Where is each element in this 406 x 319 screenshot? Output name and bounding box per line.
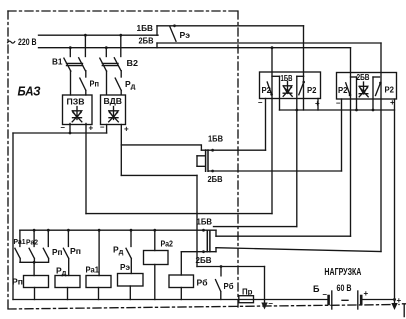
- node dot Rp1 top: [47, 229, 50, 232]
- contact Re blade: [170, 27, 176, 41]
- wire bottom bus right: [363, 299, 395, 301]
- svg-text:+: +: [364, 289, 369, 298]
- svg-text:+: +: [89, 124, 94, 133]
- wire VDV plus branch to plates: [121, 145, 201, 150]
- wire c1 riser to U1: [271, 48, 273, 214]
- wire Rb coil top riser: [180, 252, 182, 275]
- svg-text:В2: В2: [127, 58, 139, 68]
- svg-text:220 В: 220 В: [18, 37, 37, 48]
- wire PZV minus pin: [69, 124, 71, 134]
- wire U1 goalpost left: [279, 76, 281, 110]
- contact P2 right U1 stub: [297, 75, 304, 77]
- svg-text:–: –: [323, 290, 328, 299]
- wire riser to 2BV line: [156, 43, 158, 48]
- contact Rp2: [63, 230, 68, 275]
- rectifier unit PZV box: [63, 95, 93, 125]
- svg-text:Рб: Рб: [197, 278, 208, 288]
- contact P2 left U2 stub: [351, 76, 357, 78]
- svg-text:2БВ: 2БВ: [357, 73, 370, 82]
- wire left rail down: [12, 133, 14, 300]
- node dot U1 left top: [271, 46, 274, 49]
- battery switch lower main vertical: [196, 214, 198, 267]
- node dot U2 blade left: [349, 94, 352, 97]
- contact Rp1: [43, 230, 48, 262]
- svg-text:Ра2: Ра2: [161, 239, 174, 249]
- svg-text:Р2: Р2: [262, 86, 272, 95]
- battery switch lower plates: [207, 230, 210, 252]
- wire riser to 1BV line: [156, 26, 158, 35]
- wire V2 left to VDV: [106, 71, 108, 95]
- unit U2 box 2BV: [337, 73, 397, 100]
- svg-text:1БВ: 1БВ: [137, 23, 154, 33]
- svg-text:Ра1: Ра1: [86, 265, 100, 275]
- node dot upper bottom lead: [211, 170, 214, 173]
- wire top lead to U1 minus: [265, 99, 267, 151]
- svg-text:+: +: [124, 125, 129, 134]
- wire load minus drop: [264, 267, 266, 304]
- diode symbol U2: [359, 82, 368, 97]
- svg-text:Рп: Рп: [90, 79, 100, 89]
- unit U1 box 1BV: [260, 72, 321, 99]
- svg-text:Пр: Пр: [242, 288, 253, 297]
- breaker V2 pole right: [120, 35, 122, 56]
- contact Ra1: [15, 230, 20, 262]
- breaker V2 blade left: [100, 58, 107, 71]
- svg-text:2БВ: 2БВ: [208, 175, 223, 184]
- enclosure dash-dot border BAZ top: [8, 10, 238, 12]
- coil Ra1: [86, 276, 111, 288]
- node dot V1 left on bottom bus: [69, 46, 72, 49]
- node dot Rd2 top: [130, 229, 133, 232]
- node dot Rp coil drop: [33, 261, 36, 264]
- node dot Ra1 riser: [98, 229, 101, 232]
- contact Ra2: [29, 230, 34, 262]
- svg-text:Рп: Рп: [12, 277, 23, 287]
- diode symbol U1: [283, 82, 292, 97]
- wire 1BV tap horizontal: [214, 226, 297, 228]
- wire Ra1 coil riser: [98, 230, 100, 275]
- svg-text:Рэ: Рэ: [120, 262, 130, 272]
- battery switch upper bracket stubs: [197, 156, 205, 167]
- node dot U2 goalpost right on H rail: [372, 109, 375, 112]
- node dot plus rail: [393, 298, 396, 301]
- svg-text:Рд: Рд: [125, 79, 136, 91]
- wire drop to Rp coil: [33, 262, 35, 275]
- contact P2 right U2 blade: [376, 83, 381, 96]
- wire Re coil bottom: [129, 286, 131, 300]
- svg-text:+: +: [315, 99, 320, 108]
- relay row top wire: [20, 229, 216, 231]
- node dot U1 blade right: [302, 81, 305, 84]
- breaker V1 blade left: [64, 58, 71, 71]
- wire upper plates top lead: [201, 149, 265, 151]
- wire VDV to bracket: [121, 174, 197, 176]
- battery switch lower bottom stub: [181, 251, 216, 253]
- svg-text:Б: Б: [313, 284, 320, 294]
- wire V2 right to Rd contact: [120, 71, 122, 77]
- wire V1 left to PZV: [70, 71, 72, 95]
- contact P2 left U2 blade: [346, 83, 350, 95]
- arrow load minus: [261, 303, 267, 310]
- wire V1 right to Rp contact: [85, 71, 87, 77]
- node dot U1 goalpost right on H rail: [295, 109, 298, 112]
- node dot U2 blade right: [379, 82, 382, 85]
- node dot Ra2 top: [33, 229, 36, 232]
- wire lower corner to load: [197, 266, 265, 268]
- contact Rd blade: [115, 78, 121, 90]
- svg-text:–: –: [100, 123, 105, 132]
- node dot V2 right on top bus: [119, 34, 122, 37]
- svg-text:Рп: Рп: [52, 247, 63, 257]
- node dot upper top lead: [211, 149, 214, 152]
- enclosure dash-dot border BAZ left: [7, 11, 9, 309]
- coil Re: [118, 274, 144, 287]
- wire Rd to VDV: [120, 90, 122, 94]
- node dot load branch: [220, 265, 223, 268]
- wire 1BV line to box U1: [157, 25, 304, 27]
- diode symbol VDV: [109, 107, 119, 122]
- wire long PZV plus horizontal: [86, 213, 272, 215]
- wire series H rail: [280, 109, 395, 111]
- svg-text:Рд: Рд: [113, 245, 124, 257]
- svg-text:В1: В1: [52, 57, 63, 67]
- wire Rp to PZV: [85, 90, 87, 95]
- node dot PZV minus: [69, 132, 72, 135]
- battery B cell2 thick plate: [360, 296, 363, 304]
- battery B cell1 long plate: [331, 291, 333, 309]
- wire U1 right top pin: [303, 26, 305, 77]
- wire U2 plus drop right edge: [394, 99, 396, 304]
- wire c4 U2 right drop: [380, 43, 382, 252]
- svg-text:1БВ: 1БВ: [281, 74, 293, 83]
- artifact mark bottom right corner: [403, 304, 406, 317]
- breaker V1 linkage: [67, 63, 83, 65]
- breaker V2 pole left: [105, 48, 107, 57]
- svg-text:Р2: Р2: [385, 86, 395, 95]
- svg-text:+: +: [390, 98, 395, 107]
- breaker V2 linkage: [102, 63, 118, 65]
- wire Ra1 coil bottom: [98, 288, 100, 300]
- wire c3 horizontal to lower plates: [216, 235, 351, 237]
- wire bracket to long drop: [196, 175, 198, 213]
- node dot V1 right on top bus: [84, 34, 87, 37]
- node dot U2 goalpost left on H rail: [355, 109, 358, 112]
- coil Rp: [24, 276, 49, 288]
- wire U2 goalpost right: [372, 77, 374, 110]
- svg-text:БАЗ: БАЗ: [18, 84, 42, 99]
- wire Ra2 coil riser: [154, 230, 156, 250]
- svg-text:–: –: [258, 98, 263, 107]
- coil Rb: [169, 275, 194, 288]
- svg-text:Ра2: Ра2: [26, 238, 38, 247]
- battery switch upper bracket vertical: [196, 156, 198, 167]
- svg-text:Ра1: Ра1: [14, 237, 26, 246]
- svg-text:ПЗВ: ПЗВ: [67, 97, 85, 107]
- battery switch upper plates: [206, 150, 208, 171]
- enclosure dash-dot border bottom chassis: [8, 305, 399, 310]
- wire VDV plus drop: [120, 125, 122, 176]
- battery B cell2 long plate: [357, 291, 359, 309]
- breaker V1 pole right: [84, 35, 86, 56]
- svg-text:ВДВ: ВДВ: [104, 96, 123, 106]
- breaker V1 blade right: [79, 58, 86, 71]
- svg-text:Рб: Рб: [224, 281, 234, 291]
- svg-text:НАГРУЗКА: НАГРУЗКА: [324, 267, 361, 278]
- wire U2 goalpost left: [356, 77, 358, 110]
- svg-text:1БВ: 1БВ: [208, 135, 223, 144]
- svg-text:–: –: [61, 123, 66, 132]
- wire U1 plus pin: [317, 99, 319, 111]
- wire 2BV line to box U2: [157, 42, 381, 44]
- fuse Pr: [239, 296, 254, 303]
- rectifier unit VDV box: [101, 95, 126, 125]
- arrow load plus: [391, 303, 397, 310]
- coil Ra2: [144, 251, 169, 265]
- svg-text:Р2: Р2: [307, 86, 317, 95]
- wire Rd coil bottom: [67, 288, 69, 300]
- label ~220V: [7, 41, 15, 43]
- wire Rb coil bottom: [180, 288, 182, 300]
- breaker V1 pole left: [69, 48, 71, 57]
- breaker V2 blade right: [114, 58, 121, 71]
- svg-text:Рп: Рп: [70, 246, 81, 256]
- wire c2 riser to U1 goalpost right: [296, 76, 298, 226]
- node dot Rp2 top: [67, 229, 70, 232]
- svg-text:Рд: Рд: [56, 266, 67, 278]
- diode symbol PZV: [72, 107, 82, 122]
- svg-text:+: +: [397, 296, 402, 305]
- contact P2 left U1 blade: [267, 82, 271, 94]
- wire lower leads risers: [215, 230, 217, 252]
- coil Rd: [55, 276, 80, 288]
- contact P2 right U1 blade: [299, 82, 304, 95]
- wire minus rail horizontal: [13, 132, 107, 134]
- svg-text:Р2: Р2: [338, 86, 348, 95]
- node dot Re: [173, 24, 176, 27]
- node dot V2 left on bottom bus: [105, 46, 108, 49]
- wire Ra2 coil bottom: [154, 265, 156, 300]
- contact P2 right U2 stub: [373, 76, 380, 78]
- wire PZV plus long drop: [85, 124, 87, 214]
- node dot lower bottom stub: [202, 250, 205, 253]
- svg-text:60 В: 60 В: [337, 283, 352, 293]
- svg-text:–: –: [269, 299, 274, 308]
- contact Rp blade: [80, 78, 86, 90]
- node dot lower top stub: [202, 229, 205, 232]
- battery B cell1 thick plate: [327, 296, 330, 304]
- wire VDV minus pin: [106, 125, 108, 134]
- wire Rp coil bottom: [34, 288, 36, 300]
- contact P2 left U1 stub: [272, 75, 280, 77]
- wire bottom bus left: [13, 299, 327, 301]
- wire upper plates bottom lead: [209, 170, 342, 172]
- svg-text:1БВ: 1БВ: [197, 218, 213, 227]
- enclosure dash-dot border BAZ right: [237, 11, 239, 307]
- wire c4 horizontal to lower plates: [216, 248, 381, 252]
- svg-text:2БВ: 2БВ: [196, 256, 212, 265]
- node dot U1 blade left: [270, 93, 273, 96]
- contact Rd2: [126, 230, 131, 273]
- svg-text:–: –: [336, 99, 341, 108]
- wire 220V bottom bus: [39, 47, 351, 49]
- contact Rb fuse branch: [216, 267, 222, 300]
- svg-text:Рэ: Рэ: [180, 30, 191, 40]
- svg-text:2БВ: 2БВ: [139, 36, 154, 46]
- battery B middle dash: [342, 299, 348, 301]
- wire 220V top bus: [39, 34, 159, 36]
- node dot Ra2 riser: [153, 229, 156, 232]
- wire parallel contacts bottom: [20, 261, 48, 263]
- wire c3 U2 left drop: [350, 48, 352, 237]
- wire bottom lead to U2 minus: [341, 99, 343, 171]
- wire U1 right pin through: [303, 76, 305, 110]
